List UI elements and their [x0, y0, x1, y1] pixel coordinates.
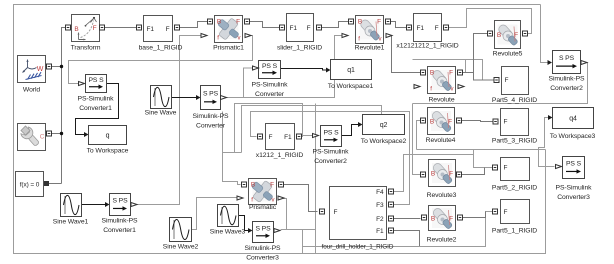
wire Sine Wave2 to Prismatic f [192, 198, 237, 230]
port four_drill F [320, 209, 325, 214]
block To Workspace3 q4 [553, 108, 594, 129]
wire jog joining drops at y152 [223, 152, 242, 154]
svg-text:q4: q4 [569, 116, 577, 123]
junction dot W [60, 65, 63, 68]
label World [23, 87, 40, 94]
svg-text:F: F [504, 209, 508, 216]
svg-text:Simulink-PS: Simulink-PS [245, 245, 281, 252]
svg-text:Simulink-PS: Simulink-PS [102, 218, 138, 225]
label Prismatic1 [213, 45, 244, 52]
svg-text:F3: F3 [376, 202, 384, 209]
svg-text:x1212_1_RIGID: x1212_1_RIGID [256, 152, 304, 159]
block Part5_2_RIGID [501, 158, 530, 181]
svg-text:World: World [23, 87, 40, 94]
svg-text:B: B [430, 119, 434, 126]
port x1212_1_RIGID F1 [297, 134, 302, 139]
block PS-Simulink Converter2 mid [321, 126, 342, 147]
svg-text:F2: F2 [376, 216, 384, 223]
svg-text:B: B [497, 32, 501, 39]
junction dot C [60, 132, 63, 135]
port Part5_1_RIGID F [493, 209, 498, 214]
label Simulink-PS Converter2 [549, 76, 585, 93]
block To Workspace1 q1 [331, 60, 372, 80]
port Revolute1 v [386, 34, 392, 38]
wire Prismatic v branch [282, 199, 303, 247]
svg-text:B: B [430, 70, 434, 77]
wire slider_1_RIGID F to Revolute1 B [319, 22, 349, 28]
port Revolute B [421, 70, 426, 75]
svg-text:PS-Simulink: PS-Simulink [556, 185, 593, 192]
svg-text:slider_1_RIGID: slider_1_RIGID [277, 45, 322, 52]
svg-text:F: F [514, 32, 518, 39]
svg-text:PS S: PS S [566, 161, 582, 168]
svg-text:S PS: S PS [559, 55, 575, 62]
block slider_1_RIGID [287, 14, 314, 42]
block Prismatic1 [215, 16, 243, 43]
wire bridge to x1212 F1 and converter2 input [301, 136, 313, 137]
label PS-Simulink Converter1 [78, 96, 115, 113]
block Part5_4_RIGID [502, 67, 529, 95]
label slider_1_RIGID [277, 45, 322, 52]
label PS-Simulink Converter3 right [556, 185, 593, 202]
wire Revolute F riser [465, 60, 467, 73]
wire y111 run x1212 F to four_drill F3 riser [251, 112, 410, 150]
wire Simulink-PS Converter2 output loop to y103 [413, 63, 588, 104]
label To Workspace [87, 148, 129, 155]
block Simulink-PS Converter3 [253, 222, 274, 243]
block Sine Wave1 [61, 194, 82, 217]
block Sine Wave [151, 86, 172, 109]
svg-text:W: W [37, 66, 44, 73]
block Simulink-PS Converter1 bottom [110, 194, 131, 216]
wire Revolute4 B riser [417, 121, 421, 150]
port Revolute2 F [458, 215, 463, 220]
svg-text:Part5_3_RIGID: Part5_3_RIGID [492, 138, 537, 145]
port Revolute f [414, 85, 420, 89]
block x1212_1_RIGID [266, 124, 295, 150]
svg-text:Converter2: Converter2 [550, 85, 583, 92]
wire Mechanism Configuration C to junction [49, 133, 62, 135]
wire Revolute2 F join to Part5_1 F [458, 212, 486, 218]
port Revolute3 F [457, 172, 462, 177]
block Simulink-PS Converter2 [553, 51, 581, 74]
port four_drill F3 [389, 202, 394, 207]
block Revolute4 [428, 108, 455, 135]
svg-text:Converter: Converter [196, 123, 226, 130]
block Revolute5 [495, 21, 521, 49]
port Revolute4 F [457, 118, 462, 123]
wire Transform F to base_1_RIGID F1 [105, 27, 137, 29]
port Prismatic f [237, 196, 243, 200]
svg-text:B: B [251, 182, 255, 189]
block Simulink-PS Converter [201, 86, 221, 110]
port Prismatic F [279, 182, 284, 187]
svg-text:PS S: PS S [88, 77, 104, 84]
svg-text:F: F [269, 134, 273, 141]
port PS-Simulink Converter in [253, 66, 259, 70]
port Simulink-PS Converter3 out [274, 229, 280, 233]
svg-text:v: v [238, 36, 241, 42]
block Part5_1_RIGID [501, 200, 530, 224]
port Prismatic B [242, 182, 247, 187]
port Revolute1 F [386, 19, 391, 24]
wire Simulink-PS Converter3 output up x315 [281, 104, 316, 230]
wire PS-Simulink Converter output to To Workspace1 q1 [281, 68, 331, 73]
svg-text:q1: q1 [347, 67, 355, 74]
port Transform F [100, 25, 105, 30]
svg-text:C: C [40, 134, 45, 141]
wire Sine Wave3 to Simulink-PS Converter3 [239, 216, 253, 234]
svg-text:B: B [217, 19, 221, 26]
label Part5_2_RIGID [492, 185, 537, 192]
port PS-Simulink Converter3 right in [556, 165, 562, 169]
wire Revolute1 v down to Revolute B [390, 36, 421, 73]
svg-text:Simulink-PS: Simulink-PS [193, 113, 229, 120]
svg-text:F: F [334, 209, 338, 216]
block To Workspace2 q2 [363, 115, 405, 135]
svg-text:Sine Wave: Sine Wave [145, 110, 177, 117]
wire Prismatic1 v down-around to PS-Simulink Converter1 input [69, 36, 253, 84]
label x1212_1_RIGID [256, 152, 304, 159]
wire branch PS-Simulink Converter input drop [244, 68, 253, 98]
svg-text:Part5_1_RIGID: Part5_1_RIGID [492, 228, 537, 235]
label Simulink-PS Converter [193, 113, 229, 130]
svg-text:F: F [236, 19, 240, 26]
port Mechanism Configuration C [47, 131, 52, 136]
svg-text:Part5_2_RIGID: Part5_2_RIGID [492, 185, 537, 192]
svg-text:Revolute: Revolute [428, 97, 454, 104]
label x12121212_1_RIGID [396, 43, 458, 50]
port Simulink-PS Converter1 bottom out [131, 203, 137, 207]
svg-text:PS S: PS S [262, 63, 278, 70]
wire Revolute3 F join [457, 168, 485, 175]
svg-text:PS S: PS S [323, 129, 339, 136]
port slider_1_RIGID F [317, 25, 322, 30]
label four_drill_holder_1_RIGID [322, 244, 394, 251]
wire lineA y149 to x545 [417, 149, 546, 151]
svg-text:F1: F1 [417, 25, 425, 32]
port Prismatic1 v [245, 34, 251, 38]
block Transform (Rigid Transform) [72, 15, 100, 42]
label Simulink-PS Converter1 bottom [102, 218, 138, 235]
block Revolute3 [429, 160, 456, 187]
svg-text:F: F [504, 119, 508, 126]
wire Revolute1 F to x12121212_1_RIGID F1 [389, 22, 407, 28]
block Revolute2 [429, 206, 456, 231]
port Part5_3_RIGID F [493, 119, 498, 124]
block World Frame [18, 56, 46, 83]
label Revolute3 [427, 192, 457, 199]
svg-text:B: B [431, 216, 435, 223]
svg-text:Revolute5: Revolute5 [493, 51, 523, 58]
wire PS-Simulink Converter2 output to To Workspace2 q2 [342, 122, 363, 136]
svg-text:v: v [272, 198, 275, 204]
wire x302 strut to bottom wire [302, 231, 304, 254]
svg-text:F1: F1 [290, 25, 298, 32]
wire y59 horizontal [413, 60, 483, 81]
svg-text:v: v [379, 37, 382, 43]
wire Revolute F to Part5_4 F [460, 73, 494, 81]
block Solver Configuration [16, 172, 44, 197]
svg-text:Revolute3: Revolute3 [427, 192, 457, 199]
block base_1_RIGID [144, 16, 173, 42]
label Revolute [428, 97, 454, 104]
label PS-Simulink Converter2 mid [313, 149, 350, 166]
svg-text:Revolute4: Revolute4 [426, 137, 456, 144]
svg-text:F: F [449, 216, 453, 223]
wire Prismatic1 F to slider_1_RIGID F1 [248, 22, 280, 28]
wire drop to Prismatic B [223, 112, 241, 185]
block Revolute1 [356, 16, 384, 44]
svg-text:Converter: Converter [255, 91, 285, 98]
port Simulink-PS Converter2 out [581, 61, 587, 65]
svg-text:F: F [307, 25, 311, 32]
wire lineB y154 four_drill F4 [393, 155, 474, 192]
label To Workspace1 [328, 83, 374, 90]
svg-text:F: F [377, 19, 381, 26]
label Transform [71, 45, 101, 52]
svg-text:v: v [451, 87, 454, 93]
label base_1_RIGID [139, 45, 183, 52]
wire spine x412 down to Revolute3 B [413, 104, 421, 175]
svg-text:B: B [74, 26, 78, 33]
svg-text:F1: F1 [376, 228, 384, 235]
svg-text:S PS: S PS [112, 198, 128, 205]
port Revolute F [458, 70, 463, 75]
label PS-Simulink Converter [252, 82, 289, 99]
port Transform B [66, 25, 71, 30]
port Revolute3 B [421, 172, 426, 177]
port PS-Simulink Converter1 in [79, 82, 85, 86]
svg-text:Transform: Transform [71, 45, 101, 52]
wire Simulink-PS Converter1 output up to Prismatic1 f [136, 36, 201, 205]
svg-text:Converter1: Converter1 [79, 105, 112, 112]
wire PS-Simulink Converter1 output to To Workspace q [76, 84, 119, 138]
svg-text:F: F [93, 25, 97, 32]
label Simulink-PS Converter3 [245, 245, 281, 262]
label Revolute1 [355, 45, 385, 52]
svg-text:F1: F1 [284, 134, 292, 141]
svg-text:F: F [504, 165, 508, 172]
svg-text:F: F [505, 77, 509, 84]
svg-text:Converter3: Converter3 [557, 194, 590, 201]
svg-text:Revolute2: Revolute2 [427, 237, 457, 244]
svg-text:base_1_RIGID: base_1_RIGID [139, 45, 183, 52]
svg-text:F: F [449, 171, 453, 178]
wire y105 run [242, 106, 382, 153]
block PS-Simulink Converter [259, 61, 281, 79]
wire base_1_RIGID F to Prismatic1 B [178, 22, 208, 28]
port Part5_4_RIGID F [494, 78, 499, 83]
svg-text:F: F [448, 119, 452, 126]
label Prismatic [249, 204, 277, 211]
port four_drill F2 [389, 216, 394, 221]
wire World W to junction [49, 66, 62, 68]
port PS-Simulink Converter2 mid in [313, 134, 319, 138]
wire Simulink-PS Converter output to Revolute1 f [227, 36, 342, 98]
label To Workspace3 [550, 133, 596, 140]
wire x315 lower strut [315, 230, 317, 254]
svg-text:Revolute1: Revolute1 [355, 45, 385, 52]
block Mechanism Configuration [18, 124, 46, 151]
block Revolute [428, 67, 456, 94]
svg-text:f(x) = 0: f(x) = 0 [20, 182, 40, 189]
block Sine Wave3 [218, 205, 239, 227]
label Revolute4 [426, 137, 456, 144]
svg-text:PS-Simulink: PS-Simulink [313, 149, 350, 156]
svg-text:x12121212_1_RIGID: x12121212_1_RIGID [396, 43, 458, 50]
wire four_drill F1 to Part5_1 F via y246 [393, 231, 420, 247]
port Prismatic1 F [245, 19, 250, 24]
block Prismatic [249, 179, 277, 205]
svg-text:B: B [358, 19, 362, 26]
wire Sine Wave to Simulink-PS Converter [172, 95, 201, 100]
svg-text:q: q [106, 133, 110, 140]
block To Workspace q [89, 126, 127, 145]
label Sine Wave1 [53, 219, 89, 226]
svg-text:To Workspace3: To Workspace3 [550, 133, 596, 140]
port x12121212_1_RIGID F1 [407, 25, 412, 30]
label To Workspace2 [361, 138, 407, 145]
port base_1_RIGID F [175, 25, 180, 30]
svg-text:F: F [270, 182, 274, 189]
port Revolute4 B [421, 118, 426, 123]
label Revolute5 [493, 51, 523, 58]
label Sine Wave2 [163, 244, 199, 251]
port Part5_2_RIGID F [493, 165, 498, 170]
svg-text:F: F [449, 70, 453, 77]
port Simulink-PS Converter out [221, 96, 227, 100]
wire Prismatic F to four_drill F [282, 185, 318, 212]
label Part5_1_RIGID [492, 228, 537, 235]
label Sine Wave3 [210, 229, 246, 236]
svg-text:To Workspace2: To Workspace2 [361, 138, 407, 145]
svg-text:Converter2: Converter2 [314, 158, 347, 165]
svg-text:Converter1: Converter1 [103, 227, 136, 234]
svg-text:Sine Wave1: Sine Wave1 [53, 219, 89, 226]
svg-text:four_drill_holder_1_RIGID: four_drill_holder_1_RIGID [322, 244, 394, 251]
port Revolute2 B [422, 215, 427, 220]
port four_drill F1 [389, 228, 394, 233]
port Solver Configuration [45, 182, 49, 186]
block PS-Simulink Converter3 right [563, 157, 585, 179]
wire four_drill F3 stub [393, 150, 410, 205]
port Prismatic1 f [201, 34, 207, 38]
block Part5_3_RIGID [501, 109, 529, 136]
svg-text:S PS: S PS [255, 225, 271, 232]
svg-text:PS-Simulink: PS-Simulink [78, 96, 115, 103]
svg-text:B: B [431, 171, 435, 178]
port Revolute w [458, 85, 464, 89]
wire into To Workspace3 q4 [539, 115, 553, 167]
svg-text:S PS: S PS [203, 91, 219, 98]
port Revolute1 B [349, 19, 354, 24]
svg-text:Converter3: Converter3 [246, 255, 279, 262]
port four_drill F4 [389, 189, 394, 194]
wire branch into PS-Simulink Converter3 input [546, 166, 555, 168]
port x1212_1_RIGID F [258, 134, 263, 139]
label Sine Wave [145, 110, 177, 117]
svg-text:Sine Wave3: Sine Wave3 [210, 229, 246, 236]
wire y103 bridge [235, 104, 303, 153]
svg-text:Simulink-PS: Simulink-PS [549, 76, 585, 83]
port Prismatic v [278, 196, 284, 200]
svg-text:Sine Wave2: Sine Wave2 [163, 244, 199, 251]
port Revolute5 B [488, 31, 493, 36]
svg-text:To Workspace: To Workspace [87, 148, 129, 155]
port Revolute1 f [342, 34, 348, 38]
block Sine Wave2 [170, 218, 192, 242]
wire x12121212 F over-the-top to Revolute5 F [446, 9, 532, 34]
svg-text:Prismatic: Prismatic [249, 204, 277, 211]
svg-text:To Workspace1: To Workspace1 [328, 83, 374, 90]
port Revolute5 F [523, 31, 528, 36]
label Revolute2 [427, 237, 457, 244]
port slider_1_RIGID F1 [280, 25, 285, 30]
svg-text:q2: q2 [380, 122, 388, 129]
label Part5_4_RIGID [492, 97, 537, 104]
port base_1_RIGID F1 [137, 25, 142, 30]
wire x473 drop to Part5_2 F [474, 150, 493, 168]
svg-text:F: F [435, 25, 439, 32]
port x12121212_1_RIGID F [444, 25, 449, 30]
block four_drill_holder_1_RIGID [330, 187, 387, 240]
wire Sine Wave1 to Simulink-PS Converter1 [82, 202, 110, 207]
svg-text:F4: F4 [376, 189, 384, 196]
wire conserving spine x61 [62, 28, 66, 184]
wire y246 Prismatic v run [303, 212, 493, 247]
block x12121212_1_RIGID [414, 14, 442, 42]
wire Solver Configuration to junction [46, 183, 62, 185]
label Part5_3_RIGID [492, 138, 537, 145]
svg-text:PS-Simulink: PS-Simulink [252, 82, 289, 89]
svg-text:Part5_4_RIGID: Part5_4_RIGID [492, 97, 537, 104]
block PS-Simulink Converter1 [86, 75, 107, 93]
port Prismatic1 B [208, 19, 213, 24]
wire x540 drop into Simulink-PS Converter2 input [541, 5, 553, 66]
wire four_drill F2 to Revolute2 B [393, 218, 421, 220]
port World W [47, 64, 52, 69]
wire Revolute5 B drop [474, 34, 488, 73]
svg-text:F: F [166, 26, 170, 33]
wire Revolute4 F to Part5_3 F [459, 121, 494, 122]
svg-text:F1: F1 [147, 26, 155, 33]
svg-text:Prismatic1: Prismatic1 [213, 45, 244, 52]
